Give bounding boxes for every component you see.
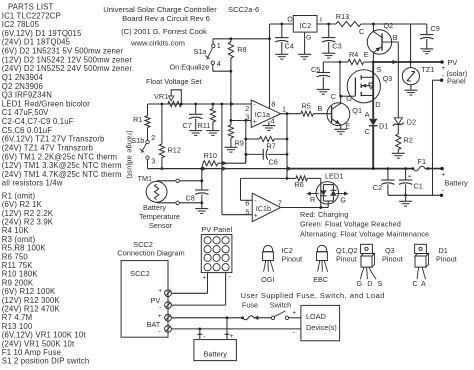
ground C3: [322, 52, 335, 54]
regulator IC2 box: [293, 16, 317, 33]
junction LED drive: [319, 206, 322, 209]
svg-text:TZ1: TZ1: [421, 65, 434, 74]
transzorb TZ1: [410, 62, 412, 68]
resistor R8: [230, 39, 232, 42]
led LED1 green diode: [330, 190, 337, 195]
svg-text:(24V) D1 18TQ045: (24V) D1 18TQ045: [2, 38, 71, 47]
pot VR1: [168, 101, 182, 106]
wire pin6 branch: [241, 177, 288, 179]
resistor R11: [212, 104, 214, 109]
junction Q2 C: [372, 23, 375, 26]
svg-text:Q3 IRF9Z34N: Q3 IRF9Z34N: [2, 91, 52, 100]
wire BAT- line: [171, 328, 301, 330]
svg-text:(C) 2001 G. Forrest Cook: (C) 2001 G. Forrest Cook: [121, 27, 207, 36]
svg-text:C4: C4: [285, 41, 294, 50]
svg-text:1: 1: [217, 41, 221, 50]
svg-text:SCC2: SCC2: [130, 269, 150, 278]
junction R8 top: [230, 37, 233, 40]
svg-text:C5: C5: [311, 65, 320, 74]
svg-text:5: 5: [245, 207, 249, 216]
svg-text:(6V) R2 1K: (6V) R2 1K: [2, 200, 43, 209]
svg-text:Board Rev a Circuit Rev 6: Board Rev a Circuit Rev 6: [122, 14, 210, 23]
terminal PV+: [440, 60, 443, 63]
svg-text:R10 180K: R10 180K: [2, 270, 39, 279]
svg-text:BAT: BAT: [147, 320, 161, 329]
op-amp IC1a: [251, 100, 281, 128]
junction pin3 b: [244, 119, 247, 122]
svg-text:A: A: [421, 279, 426, 288]
junction pin5 top: [221, 103, 224, 106]
svg-text:C6: C6: [269, 157, 278, 166]
fuse F1: [412, 167, 415, 170]
ground IC2: [304, 32, 306, 54]
switch conn: [271, 316, 274, 319]
wire TM1 top: [156, 180, 158, 183]
pinout Q3 package: [361, 244, 373, 253]
svg-text:(12V) D2 1N5242 12V 500mw zen: (12V) D2 1N5242 12V 500mw zener: [2, 55, 133, 64]
capacitor C9: [410, 24, 412, 62]
capacitor C7: [195, 104, 197, 114]
svg-text:R9 200K: R9 200K: [2, 278, 34, 287]
wire pin3 riser: [245, 121, 247, 164]
svg-text:OGI: OGI: [261, 275, 274, 284]
svg-text:D2: D2: [407, 117, 416, 126]
svg-text:all resistors 1/4w: all resistors 1/4w: [2, 179, 63, 188]
svg-text:LED1: LED1: [325, 171, 343, 180]
transistor Q3 circle: [347, 70, 380, 103]
svg-text:SCC2a-6: SCC2a-6: [228, 5, 259, 14]
ground C4: [275, 53, 288, 55]
svg-text:C: C: [413, 279, 418, 288]
wire BAT+ line: [171, 317, 242, 319]
junction R11: [212, 103, 215, 106]
resistor R13: [336, 21, 361, 26]
svg-text:+: +: [253, 119, 257, 126]
svg-text:Pinout: Pinout: [336, 254, 357, 263]
wire PV+ bus: [373, 61, 442, 63]
ground IC1a pin4: [268, 122, 270, 126]
svg-text:VR1: VR1: [154, 92, 168, 101]
junction R6 node: [286, 177, 289, 180]
svg-text:Q2 2N3906: Q2 2N3906: [2, 82, 43, 91]
wire LED bottom stub: [327, 201, 329, 208]
svg-text:(range adjust): (range adjust): [126, 130, 135, 179]
junction batt- tap: [198, 328, 201, 331]
ground R9: [224, 146, 237, 148]
svg-text:Q1 2N3904: Q1 2N3904: [2, 73, 44, 82]
svg-text:LED1 Red/Green bicolor: LED1 Red/Green bicolor: [2, 99, 90, 108]
svg-text:Battery: Battery: [445, 178, 468, 187]
svg-text:SCC2: SCC2: [133, 240, 153, 249]
ground Q1: [334, 128, 347, 130]
terminal PV+ conn: [165, 290, 172, 297]
junction TM1 top node: [200, 179, 203, 182]
wire Q2 emitter: [372, 53, 374, 63]
svg-text:R4: R4: [349, 50, 358, 59]
junction R12 top: [161, 103, 164, 106]
svg-text:R1: R1: [133, 115, 142, 124]
svg-text:S: S: [377, 65, 382, 74]
svg-text:Connection Diagram: Connection Diagram: [117, 249, 184, 258]
svg-text:S1 2 position DIP switch: S1 2 position DIP switch: [2, 357, 90, 366]
svg-text:EBC: EBC: [313, 275, 328, 284]
svg-text:IC2 78L05: IC2 78L05: [2, 20, 40, 29]
wire Q2 collector: [372, 24, 374, 32]
svg-text:C: C: [331, 92, 336, 101]
wire Q1 emitter: [340, 125, 342, 129]
transistor Q3 taps: [361, 76, 373, 78]
svg-text:R5,R8 100K: R5,R8 100K: [2, 244, 47, 253]
svg-text:(12V) TM1 3.3K@25c NTC therm: (12V) TM1 3.3K@25c NTC therm: [2, 161, 122, 170]
terminal PV- conn: [165, 302, 172, 309]
wire ref bus: [148, 103, 252, 105]
svg-text:7: 7: [278, 199, 282, 208]
svg-text:(24V) VR1 500K 10t: (24V) VR1 500K 10t: [2, 339, 75, 348]
resistor R4: [340, 61, 348, 63]
connector TM1 bottom: [176, 201, 179, 204]
capacitor C8: [195, 189, 208, 191]
switch S1a: [212, 44, 215, 47]
svg-text:(6V,12V) D1 19TQ015: (6V,12V) D1 19TQ015: [2, 29, 82, 38]
junction R4 left: [339, 61, 342, 64]
svg-text:Universal Solar Charge Control: Universal Solar Charge Controller: [103, 5, 217, 14]
svg-text:R10: R10: [204, 151, 217, 160]
wire R6 to LED bottom: [320, 178, 322, 207]
junction IC1a out: [286, 112, 289, 115]
capacitor C3: [328, 24, 330, 38]
svg-text:R8: R8: [237, 45, 246, 54]
ground C8: [195, 208, 208, 210]
svg-text:C9: C9: [431, 24, 440, 33]
svg-text:F1: F1: [418, 157, 427, 166]
svg-text:R1 (omit): R1 (omit): [2, 191, 36, 200]
svg-text:Battery: Battery: [143, 203, 166, 212]
svg-text:F1 10 Amp Fuse: F1 10 Amp Fuse: [2, 348, 61, 357]
svg-text:On:Equalize: On:Equalize: [170, 63, 210, 72]
wire S1a-4 to R8 line: [213, 70, 231, 72]
junction 5V corner: [268, 37, 271, 40]
svg-text:G: G: [306, 35, 311, 42]
svg-text:R7: R7: [267, 141, 276, 150]
junction C6 right: [286, 153, 289, 156]
svg-text:(24V) R12 470K: (24V) R12 470K: [2, 305, 61, 314]
svg-text:+: +: [203, 275, 207, 282]
ground C7: [189, 130, 202, 132]
svg-text:Alternating: Float Voltage Mai: Alternating: Float Voltage Maintenance: [300, 230, 429, 239]
box PV panel: [201, 235, 232, 273]
svg-text:G: G: [346, 94, 352, 103]
resistor R6: [296, 176, 307, 181]
ground TZ1: [410, 85, 412, 90]
svg-text:Q3: Q3: [383, 74, 393, 83]
svg-text:O: O: [287, 17, 293, 24]
svg-text:IC2: IC2: [300, 21, 312, 30]
junction R10/TM1: [200, 167, 203, 170]
capacitor C2: [387, 169, 389, 180]
svg-text:8: 8: [271, 99, 275, 108]
junction Q3 S: [372, 61, 375, 64]
wire Q3 drain to D1: [372, 105, 374, 119]
svg-text:LOAD: LOAD: [306, 312, 326, 321]
svg-text:PARTS LIST: PARTS LIST: [8, 3, 53, 12]
transistor Q2 circle: [367, 30, 391, 54]
svg-text:R4 10K: R4 10K: [2, 226, 30, 235]
wire IC2 I to R13: [317, 23, 336, 25]
svg-text:G: G: [340, 196, 346, 205]
svg-text:Pinout: Pinout: [282, 254, 303, 263]
wire pin3: [231, 120, 251, 122]
svg-text:1: 1: [282, 105, 286, 114]
wire IC1a pin8: [269, 39, 271, 109]
svg-text:E: E: [345, 122, 350, 131]
zener D2: [397, 100, 399, 118]
svg-text:Pinout: Pinout: [436, 254, 457, 263]
resistor R7: [246, 138, 260, 140]
pv panel cells: [204, 237, 211, 244]
svg-text:(6V) R12 100K: (6V) R12 100K: [2, 287, 56, 296]
svg-text:Device(s): Device(s): [306, 323, 337, 332]
junction TM1 bottom node: [200, 201, 203, 204]
terminal battery+: [440, 167, 443, 170]
capacitor C4: [281, 24, 283, 38]
svg-text:(6V,12V) VR1 100K 10t: (6V,12V) VR1 100K 10t: [2, 331, 87, 340]
ground C5: [317, 88, 330, 90]
svg-text:D1: D1: [379, 121, 388, 130]
wire TM1 bottom: [156, 201, 158, 204]
svg-text:D: D: [375, 100, 380, 109]
svg-text:PV: PV: [448, 58, 458, 67]
op-amp IC1b: [252, 193, 281, 222]
battery plus post: [226, 318, 228, 335]
svg-text:G D S: G D S: [357, 279, 384, 288]
svg-text:(6V) D2 1N5231 5V 500mw zener: (6V) D2 1N5231 5V 500mw zener: [2, 47, 124, 56]
svg-text:2: 2: [151, 133, 155, 142]
svg-text:(24V) TM1 4.7K@25c NTC therm: (24V) TM1 4.7K@25c NTC therm: [2, 170, 122, 179]
svg-text:Sensor: Sensor: [149, 221, 173, 230]
arrow on ref bus: [230, 102, 235, 106]
junction C3: [327, 23, 330, 26]
wire left branch: [147, 104, 149, 116]
arrow bus 3: [288, 166, 293, 170]
pinout D1 package: [415, 244, 427, 253]
svg-text:Q1: Q1: [352, 106, 362, 115]
wire battery bus left: [148, 168, 288, 170]
svg-text:C1 47uF,50V: C1 47uF,50V: [2, 108, 49, 117]
wire panel+ down: [207, 273, 209, 294]
svg-text:R13 100: R13 100: [2, 322, 33, 331]
junction C2: [387, 167, 390, 170]
svg-text:C: C: [359, 27, 364, 36]
svg-text:+: +: [292, 309, 296, 316]
svg-text:(24V) R2 3.9K: (24V) R2 3.9K: [2, 218, 54, 227]
wire PV- down: [433, 79, 442, 81]
svg-text:Battery: Battery: [203, 349, 227, 358]
svg-text:+: +: [158, 288, 162, 295]
svg-text:+: +: [254, 213, 258, 220]
diode D1: [369, 119, 378, 126]
svg-text:+: +: [441, 171, 445, 178]
svg-text:R11: R11: [198, 121, 211, 130]
svg-text:C7: C7: [183, 121, 192, 130]
capacitor C1: [405, 169, 407, 180]
wire IC1a out riser: [286, 114, 288, 179]
svg-text:(24V) TZ1 47V Transzorb: (24V) TZ1 47V Transzorb: [2, 144, 94, 153]
resistor R5: [281, 113, 301, 115]
svg-text:R6 750: R6 750: [2, 252, 29, 261]
junction C6 left: [244, 153, 247, 156]
svg-text:+: +: [408, 173, 412, 180]
ground R2: [392, 152, 405, 154]
svg-text:C1: C1: [414, 182, 423, 191]
junction VR1 wiper: [180, 103, 183, 106]
svg-text:R9: R9: [235, 139, 244, 148]
junction bus D1: [372, 167, 375, 170]
svg-text:R: R: [310, 195, 315, 204]
transistor Q1 internals: [331, 106, 333, 122]
wire S1b to bottom bus: [147, 159, 149, 168]
wire R13 to Q2 collector node: [361, 23, 411, 25]
terminal BAT+ conn: [165, 314, 172, 321]
terminal PV-: [440, 79, 443, 82]
svg-text:Pinout: Pinout: [382, 254, 403, 263]
led LED1 red diode: [320, 190, 327, 195]
svg-text:C3: C3: [332, 41, 341, 50]
svg-text:A: A: [365, 110, 370, 119]
switch S1b: [146, 140, 149, 143]
transistor Q1 circle: [327, 103, 350, 126]
svg-text:R12: R12: [168, 146, 181, 155]
thermistor TM1: [146, 181, 167, 202]
junction R7 right: [286, 138, 289, 141]
fuse conn: [241, 316, 244, 319]
ground C9: [420, 48, 433, 50]
terminal BAT- conn: [165, 326, 172, 333]
led LED1 left arrow: [309, 193, 320, 195]
transistor Q3 channel: [360, 75, 362, 79]
junction R7 left: [244, 138, 247, 141]
arrow bus 1: [202, 166, 207, 170]
connector TM1 top: [176, 179, 179, 182]
svg-text:PV Panel: PV Panel: [201, 225, 232, 234]
wire Q3 source-drain: [372, 62, 374, 105]
resistor R1: [145, 116, 150, 128]
resistor R12: [161, 104, 163, 144]
pinout IC2 package: [263, 245, 272, 251]
svg-text:+: +: [230, 333, 234, 340]
battery box: [194, 340, 237, 361]
svg-text:R7 4.7M: R7 4.7M: [2, 313, 33, 322]
resistor R2: [397, 124, 399, 134]
junction C4: [280, 23, 283, 26]
svg-text:6: 6: [245, 198, 249, 207]
svg-text:R5: R5: [302, 101, 311, 110]
svg-text:IC1a: IC1a: [255, 110, 270, 119]
battery minus post: [199, 329, 201, 334]
arrow R10 wire: [223, 161, 228, 165]
svg-text:4: 4: [271, 116, 275, 125]
led LED1 ladder: [323, 184, 333, 186]
svg-text:C2-C4,C7-C9 0.1uF: C2-C4,C7-C9 0.1uF: [2, 117, 74, 126]
svg-text:(6V) TM1 2.2K@25c NTC therm: (6V) TM1 2.2K@25c NTC therm: [2, 152, 117, 161]
svg-text:IC1b: IC1b: [256, 204, 271, 213]
svg-text:(12V) R2 2.2K: (12V) R2 2.2K: [2, 209, 54, 218]
svg-text:Temperature: Temperature: [139, 212, 180, 221]
svg-text:User Supplied Fuse, Switch, an: User Supplied Fuse, Switch, and Load: [241, 291, 385, 300]
transistor Q2 internals: [381, 34, 383, 51]
junction C1 bottom: [404, 194, 407, 197]
wire C8 riser: [201, 169, 203, 190]
wire to IC2 O: [269, 24, 271, 39]
wire C5 node to gate: [339, 62, 341, 96]
svg-text:B: B: [318, 104, 323, 113]
led LED1 circle: [316, 182, 338, 204]
svg-text:R3 (omit): R3 (omit): [2, 235, 36, 244]
svg-text:4: 4: [217, 59, 221, 68]
wire 5V rail: [213, 38, 270, 40]
pinout Q1Q2 package: [317, 245, 326, 251]
svg-text:R6: R6: [295, 180, 304, 189]
terminal battery-: [440, 194, 443, 197]
ground R11: [206, 130, 219, 132]
load box: [301, 305, 340, 340]
svg-text:IC1 TLC2272CP: IC1 TLC2272CP: [2, 11, 61, 20]
resistor R9: [230, 121, 232, 126]
svg-text:C2: C2: [373, 183, 382, 192]
resistor R10: [203, 161, 218, 166]
svg-text:Fuse: Fuse: [242, 300, 258, 309]
svg-text:Switch: Switch: [270, 300, 292, 309]
svg-text:Green: Float Voltage Reached: Green: Float Voltage Reached: [300, 219, 401, 228]
svg-text:Panel: Panel: [447, 77, 466, 86]
svg-text:Float Voltage Set: Float Voltage Set: [146, 77, 202, 86]
svg-text:(6V,12V) TZ1 27V Transzorb: (6V,12V) TZ1 27V Transzorb: [2, 135, 105, 144]
wire Q2 base: [382, 41, 398, 43]
junction pin3 a: [230, 119, 233, 122]
capacitor C6: [246, 153, 263, 155]
led LED1 right arrow: [336, 193, 347, 195]
wire pin5 riser: [221, 104, 223, 215]
svg-text:3: 3: [151, 156, 155, 165]
wire battery bus right: [373, 168, 412, 170]
svg-text:C5,C6 0.01uF: C5,C6 0.01uF: [2, 126, 52, 135]
svg-text:Red: Charging: Red: Charging: [300, 210, 348, 219]
junction R12 bottom: [161, 167, 164, 170]
junction C7: [194, 103, 197, 106]
arrow on PV bus: [393, 60, 398, 64]
svg-text:S1a: S1a: [194, 47, 208, 56]
svg-text:I: I: [320, 17, 322, 24]
svg-text:C: C: [365, 127, 370, 136]
svg-text:Q2: Q2: [384, 21, 394, 30]
transistor Q3 gate bar: [354, 78, 356, 96]
svg-text:R11 75K: R11 75K: [2, 261, 33, 270]
junction C1 top: [404, 167, 407, 170]
wire battery minus: [388, 194, 442, 196]
ground C1: [405, 195, 407, 201]
box SCC2: [121, 261, 168, 338]
svg-text:(12V) R12 300K: (12V) R12 300K: [2, 296, 61, 305]
svg-text:R13: R13: [336, 12, 349, 21]
wire panel- down: [225, 273, 227, 306]
svg-text:C8: C8: [186, 194, 195, 203]
svg-text:R2: R2: [404, 135, 413, 144]
junction batt+ tap: [226, 316, 229, 319]
junction gate node: [339, 95, 342, 98]
svg-text:www.cirkits.com: www.cirkits.com: [130, 38, 185, 47]
wire R8 node down to pin3 node: [230, 71, 232, 120]
arrow bus 2: [223, 166, 228, 170]
wire gate: [341, 95, 356, 97]
